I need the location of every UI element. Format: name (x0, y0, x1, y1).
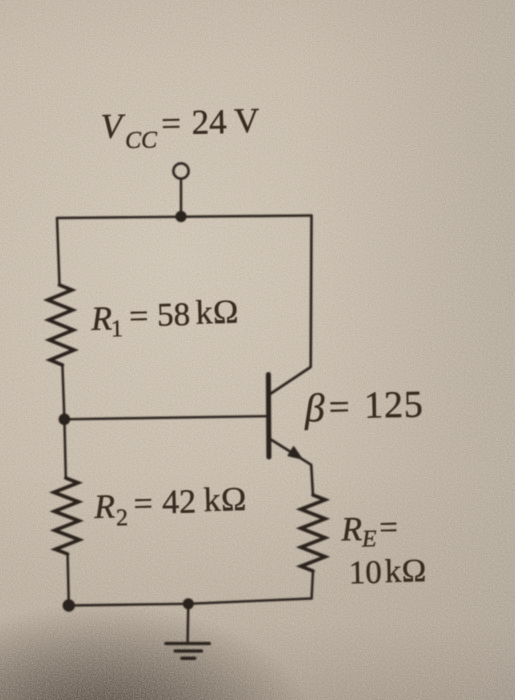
label R1 = 58 k-ohm (90, 294, 240, 343)
node: top junction (175, 211, 186, 222)
svg-text:R: R (93, 488, 116, 526)
wire: emitter branch bottom (312, 571, 313, 599)
svg-text:R: R (90, 300, 113, 338)
svg-text:=: = (133, 486, 153, 523)
transistor Q1 emitter arrow (288, 447, 301, 459)
svg-text:1: 1 (111, 316, 124, 342)
wire: left branch middle (62, 365, 64, 419)
svg-text:=: = (379, 510, 398, 546)
svg-text:β: β (303, 385, 325, 430)
ground bar 1 (166, 642, 209, 645)
node: bottom left junction (63, 599, 75, 611)
svg-text:CC: CC (125, 127, 159, 154)
ground bar 2 (175, 649, 201, 652)
wire: left branch bottom (68, 554, 69, 606)
transistor Q1 collector lead (271, 216, 312, 394)
svg-text:=: = (161, 104, 182, 143)
node: base junction (59, 414, 71, 426)
svg-text:E: E (361, 526, 378, 552)
svg-text:kΩ: kΩ (203, 481, 247, 519)
svg-text:10: 10 (348, 555, 382, 592)
wire: left branch lower (64, 419, 65, 478)
svg-text:kΩ: kΩ (195, 294, 239, 332)
Vcc terminal circle (173, 163, 188, 178)
svg-text:R: R (340, 511, 363, 548)
node: ground junction (183, 598, 194, 609)
resistor RE (301, 495, 325, 571)
label RE = (340, 510, 398, 553)
ground bar 3 (182, 657, 195, 660)
label Vcc = 24 V (100, 101, 260, 155)
label beta = 125 (303, 383, 424, 431)
svg-text:125: 125 (364, 384, 424, 427)
resistor R2 (54, 478, 80, 554)
wire: Vcc stub (180, 179, 182, 217)
svg-text:=: = (328, 387, 350, 428)
svg-text:24: 24 (191, 102, 227, 142)
wire: bottom rail (69, 599, 312, 606)
wire: base wire (64, 416, 266, 419)
svg-text:=: = (129, 298, 149, 335)
transistor Q1 base bar (266, 375, 272, 458)
transistor Q1 emitter lead (271, 440, 313, 496)
wire: left branch upper (57, 218, 60, 285)
resistor R1 (48, 285, 74, 365)
svg-text:V: V (234, 101, 260, 141)
svg-text:58: 58 (157, 297, 191, 334)
svg-text:kΩ: kΩ (384, 553, 427, 590)
circuit ink (48, 163, 325, 658)
label 10 k-ohm (348, 553, 427, 591)
label R2 = 42 k-ohm (93, 481, 248, 532)
svg-text:42: 42 (162, 483, 197, 521)
svg-text:2: 2 (116, 505, 129, 531)
ground stub (186, 604, 189, 643)
wire: top rail (57, 216, 312, 219)
